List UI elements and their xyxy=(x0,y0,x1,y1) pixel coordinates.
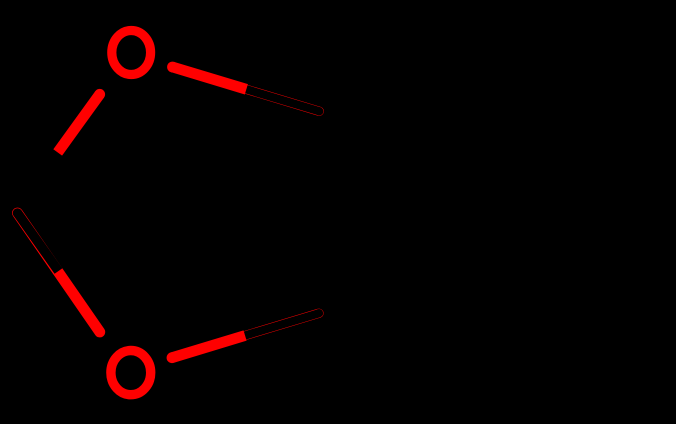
bond O2-C7a (bottom right): red oxygen half xyxy=(167,336,246,364)
bond C7-C7a xyxy=(319,313,493,413)
bond C5-C6 xyxy=(661,111,672,312)
atom O1 (top oxygen label) xyxy=(112,31,151,75)
bond C3a-C7a (fused) xyxy=(314,111,325,313)
benzene ring (black carbon bonds, invisible on black background) xyxy=(319,11,666,412)
bond O1-C3a (top right): red oxygen half xyxy=(167,62,246,90)
bond C4-C5 xyxy=(493,11,666,111)
bond C3a-C4 xyxy=(319,11,493,111)
bond O1-C2 (top left, red oxygen half only; carbon half invisible) xyxy=(58,89,105,152)
bond C6-C7 xyxy=(493,312,666,412)
bond O1-C3a carbon half: narrow black capsule with thin red rim xyxy=(246,89,324,116)
bond O2-C7a carbon half: narrow black capsule with thin red rim xyxy=(245,309,324,336)
atom O2 (bottom oxygen label) xyxy=(111,351,151,395)
bond C2-O2 (lower left): red capsule with black carbon half overlay leaving thin rim xyxy=(13,208,100,332)
